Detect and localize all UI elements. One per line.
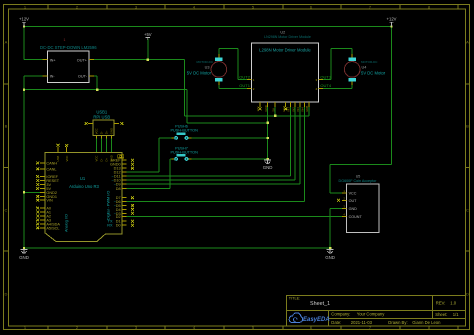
svg-text:C: C	[5, 208, 8, 213]
coin pin numbers	[343, 189, 345, 217]
svg-text:VCC: VCC	[349, 192, 357, 196]
junction bottom rail right	[329, 247, 331, 249]
USB1 rotated pin labels	[95, 128, 114, 134]
svg-text:5V DC Motor: 5V DC Motor	[361, 71, 386, 76]
svg-text:IN+: IN+	[50, 58, 57, 62]
svg-text:GND: GND	[264, 105, 268, 111]
svg-text:OUT+: OUT+	[77, 58, 88, 62]
svg-text:RX: RX	[107, 224, 113, 228]
svg-text:REV:: REV:	[436, 300, 446, 305]
svg-text:IN3: IN3	[296, 107, 300, 112]
svg-text:+5V: +5V	[144, 32, 152, 37]
svg-text:Giann De Leon: Giann De Leon	[412, 320, 441, 325]
wire: motor U3 top to OUT2	[219, 49, 252, 80]
svg-text:VCC: VCC	[95, 128, 99, 134]
svg-text:VIN: VIN	[46, 199, 53, 203]
wire: PB2 to Arduino D8	[122, 159, 174, 188]
svg-text:CANL: CANL	[46, 167, 56, 171]
no-connect x marks USB1 side pins	[85, 122, 124, 125]
svg-text:Arduino Uno R3: Arduino Uno R3	[69, 184, 99, 189]
svg-text:GND: GND	[349, 207, 358, 211]
title block (decorative)	[287, 295, 466, 326]
junction at +12V flag left	[23, 25, 25, 27]
junction L298N GND x wire	[267, 122, 269, 124]
svg-text:GND: GND	[110, 155, 114, 161]
junction GND rail left	[23, 89, 25, 91]
svg-text:Sheet:: Sheet:	[435, 312, 447, 317]
svg-text:A: A	[466, 40, 469, 45]
ground symbol (L298N / pushbuttons)	[263, 160, 273, 170]
L298N bottom rotated pin labels	[256, 105, 309, 111]
arduino left pin stubs	[40, 163, 45, 228]
wire: D6 to L298N IN4	[122, 104, 305, 202]
arduino top pins	[58, 147, 67, 153]
coin acceptor U5 DG600F	[337, 175, 379, 233]
wire: D9 to L298N IN3	[122, 104, 300, 184]
svg-text:VCC: VCC	[95, 156, 99, 162]
svg-text:A5/SCL: A5/SCL	[46, 226, 59, 230]
svg-text:1: 1	[64, 38, 66, 42]
svg-text:OUT1: OUT1	[239, 83, 250, 88]
svg-text:D: D	[466, 292, 469, 297]
svg-text:U4: U4	[362, 66, 367, 70]
svg-text:U1: U1	[80, 176, 86, 181]
svg-text:IN-: IN-	[50, 75, 56, 79]
svg-text:GND: GND	[19, 255, 29, 260]
wire: GND net	[24, 76, 346, 248]
dc-dc module U6 LM2596	[40, 38, 97, 82]
svg-text:COUNT: COUNT	[349, 215, 363, 219]
junction +5V flag	[147, 59, 149, 61]
svg-text:+12V: +12V	[387, 17, 397, 22]
pushbutton PB1	[171, 125, 199, 140]
arduino right pin labels	[110, 159, 121, 228]
wire: +5V net (LM2596 OUT+ to L298N 5V and ENB)	[89, 39, 309, 116]
svg-text:MOTOR-DC: MOTOR-DC	[197, 60, 214, 64]
svg-text:RPI USB: RPI USB	[93, 115, 110, 120]
junction GND2	[23, 191, 25, 193]
svg-text:D+: D+	[105, 157, 109, 161]
svg-text:A: A	[5, 40, 8, 45]
coin pin labels	[349, 192, 363, 220]
svg-text:TITLE:: TITLE:	[289, 297, 300, 301]
svg-text:ENB: ENB	[305, 106, 309, 112]
power flag +12V (top-left)	[19, 17, 29, 27]
svg-text:C: C	[466, 208, 469, 213]
PWM tilde marks	[112, 175, 117, 216]
svg-text:U3: U3	[205, 66, 210, 70]
ground symbol (bottom-left)	[19, 250, 29, 260]
svg-text:B: B	[5, 124, 8, 129]
small box glyph top-right inside	[118, 155, 124, 158]
junction OUT-	[96, 89, 98, 91]
svg-text:D-: D-	[100, 131, 104, 134]
svg-text:MOTOR-DC: MOTOR-DC	[361, 60, 378, 64]
svg-text:Analog I/O: Analog I/O	[65, 214, 69, 232]
wire: L298N OUT3 to motor U4 top	[318, 49, 352, 80]
L298N left pin stubs	[247, 80, 252, 89]
svg-text:OUT-: OUT-	[78, 75, 88, 79]
svg-text:DG600F Coin Acceptor: DG600F Coin Acceptor	[339, 179, 378, 183]
arduino left pin labels	[46, 161, 60, 230]
wire: D10 to L298N IN2	[122, 104, 295, 180]
motor U4 5V DC Motor	[344, 54, 385, 85]
svg-text:GND: GND	[263, 165, 273, 170]
svg-text:B: B	[466, 124, 469, 129]
motor U3 5V DC Motor	[187, 54, 227, 85]
svg-text:Your Company: Your Company	[357, 312, 385, 317]
svg-text:5V DC Motor: 5V DC Motor	[187, 71, 212, 76]
motor driver U2 L298N	[247, 30, 323, 111]
svg-text:D8: D8	[116, 187, 121, 191]
junction PB1-GND	[267, 137, 269, 139]
svg-text:1.0: 1.0	[450, 300, 456, 305]
svg-text:Drawn By:: Drawn By:	[388, 320, 407, 325]
arduino U1 Arduino Uno R3	[36, 144, 134, 241]
svg-text:D+: D+	[105, 130, 109, 134]
wire: pushbutton1 to GND vertical	[189, 137, 268, 139]
svg-text:Digital - PWM I/O: Digital - PWM I/O	[107, 191, 111, 220]
svg-text:D0: D0	[116, 224, 121, 228]
svg-text:Sheet_1: Sheet_1	[310, 301, 330, 307]
wire: L298N OUT4 to motor U4 bottom	[318, 81, 352, 88]
wire: +12V rail	[24, 27, 392, 194]
pushbutton PB2	[171, 146, 199, 160]
svg-text:Company:: Company:	[331, 312, 350, 317]
svg-text:D2: D2	[116, 215, 121, 219]
arduino right pin stubs	[122, 160, 127, 225]
power flag +5V	[144, 32, 152, 40]
wire: USB1 to Arduino (4 lines)	[97, 135, 112, 152]
wire: D2 to coin acceptor COUNT	[122, 216, 346, 218]
junction at +12V flag right	[390, 25, 392, 27]
svg-text:+12V: +12V	[19, 17, 29, 22]
svg-text:D-: D-	[100, 158, 104, 161]
svg-text:2021-11-03: 2021-11-03	[351, 320, 373, 325]
svg-text:EasyEDA: EasyEDA	[303, 317, 330, 323]
svg-text:1/1: 1/1	[453, 312, 459, 317]
no-connect x mark 12V pin	[259, 107, 262, 110]
svg-text:PUSH-BUTTON: PUSH-BUTTON	[171, 150, 199, 154]
svg-text:IN2: IN2	[291, 107, 295, 112]
svg-text:VCC: VCC	[65, 156, 69, 162]
usb connector USB1 RPI USB	[85, 110, 124, 139]
svg-text:5V: 5V	[271, 108, 275, 112]
svg-text:OUT4: OUT4	[320, 83, 331, 88]
svg-text:LN298N Motor Driver Module: LN298N Motor Driver Module	[264, 35, 311, 39]
junction bottom rail left	[23, 247, 25, 249]
no-connect x mark ENA pin	[284, 107, 287, 110]
no-connect x marks arduino left pins	[36, 162, 39, 230]
svg-text:L298N Motor Driver Module: L298N Motor Driver Module	[259, 47, 311, 52]
svg-text:GND: GND	[110, 128, 114, 134]
ground symbol (bottom-right, coin acceptor)	[325, 250, 335, 260]
junction PB2-GND	[267, 158, 269, 160]
svg-text:U5: U5	[356, 175, 361, 179]
svg-text:U2: U2	[280, 30, 285, 34]
L298N right pin stubs	[318, 80, 323, 89]
wire: motor U3 bottom to OUT1	[219, 81, 252, 88]
L298N bottom pin stubs	[260, 102, 309, 107]
pin stubs LM2596	[43, 60, 94, 76]
junction 5V pin L298N	[274, 115, 276, 117]
svg-text:USB: USB	[56, 156, 60, 162]
svg-text:GND: GND	[325, 255, 335, 260]
wire: PB1 to Arduino D12	[122, 138, 174, 172]
svg-text:OUT: OUT	[349, 199, 358, 203]
svg-text:Date:: Date:	[331, 320, 341, 325]
no-connect x marks arduino right pins	[131, 159, 134, 227]
EasyEDA logo	[289, 313, 329, 323]
svg-text:D: D	[5, 292, 8, 297]
wire: pushbutton2 to GND arrow	[189, 158, 268, 160]
power flag +12V (right)	[387, 17, 397, 27]
svg-text:OUT3: OUT3	[320, 75, 331, 80]
svg-text:OUT2: OUT2	[239, 75, 250, 80]
wire: D11 to L298N IN1	[122, 104, 291, 176]
svg-text:PUSH-BUTTON: PUSH-BUTTON	[171, 129, 199, 133]
no-connect x mark coin OUT	[337, 199, 340, 202]
svg-text:DC-DC STEP-DOWN LM2596: DC-DC STEP-DOWN LM2596	[40, 45, 97, 50]
